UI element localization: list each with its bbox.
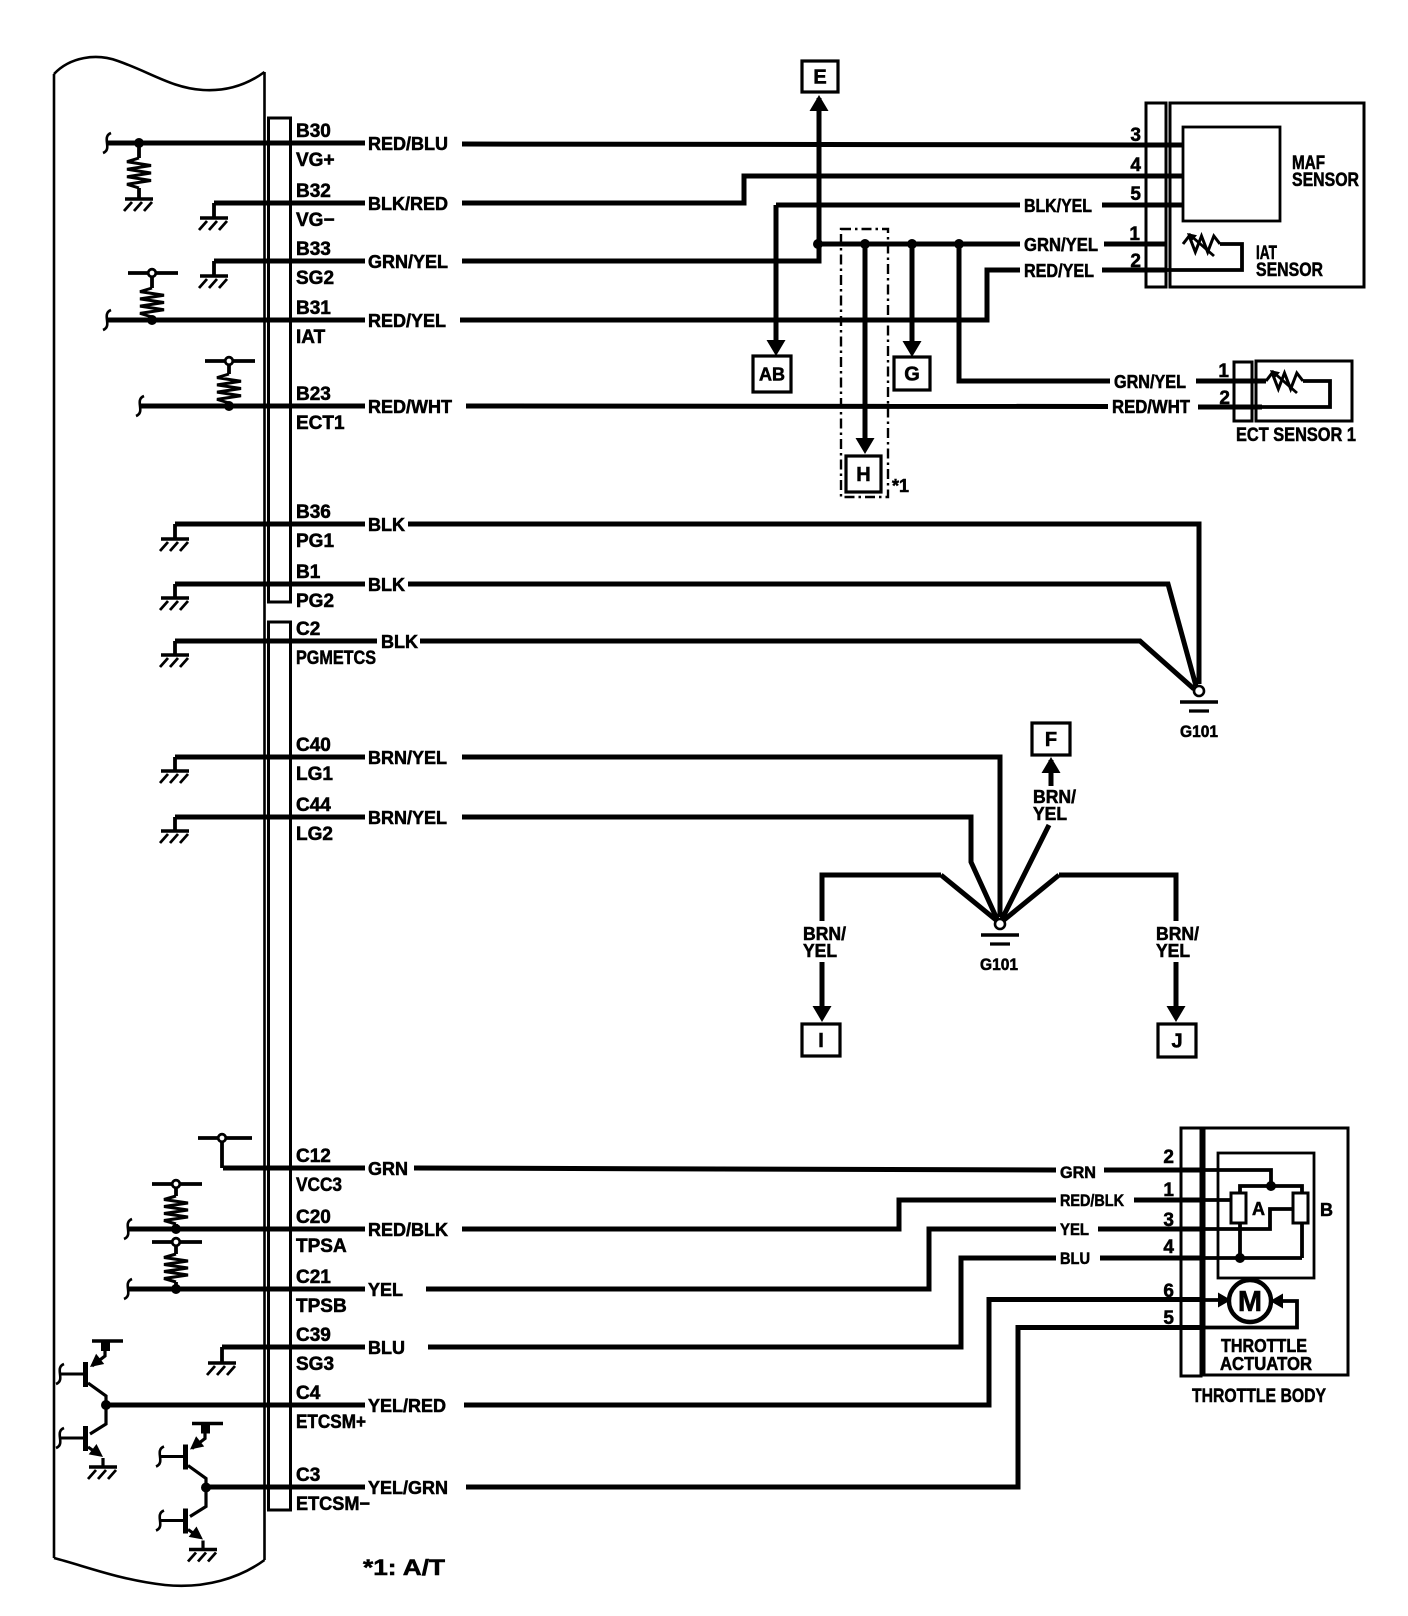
svg-text:3: 3 bbox=[1163, 1210, 1174, 1231]
svg-text:C44: C44 bbox=[296, 795, 331, 816]
svg-text:BLK/RED: BLK/RED bbox=[368, 194, 448, 214]
svg-text:YEL: YEL bbox=[1156, 941, 1190, 961]
svg-text:BLK: BLK bbox=[381, 632, 418, 652]
svg-text:J: J bbox=[1171, 1031, 1182, 1053]
svg-text:SENSOR: SENSOR bbox=[1256, 260, 1323, 281]
svg-text:B23: B23 bbox=[296, 384, 331, 405]
svg-text:ETCSM+: ETCSM+ bbox=[296, 1412, 366, 1433]
svg-text:BLK/YEL: BLK/YEL bbox=[1024, 196, 1092, 216]
svg-text:5: 5 bbox=[1130, 184, 1141, 205]
svg-text:LG1: LG1 bbox=[296, 764, 333, 785]
svg-text:1: 1 bbox=[1129, 224, 1140, 245]
svg-text:I: I bbox=[818, 1030, 824, 1052]
svg-text:H: H bbox=[856, 464, 870, 486]
svg-text:YEL/RED: YEL/RED bbox=[368, 1396, 446, 1416]
svg-text:F: F bbox=[1045, 729, 1057, 751]
svg-text:AB: AB bbox=[759, 364, 785, 384]
svg-text:BRN/YEL: BRN/YEL bbox=[368, 808, 447, 828]
svg-text:TPSB: TPSB bbox=[296, 1296, 347, 1317]
svg-text:VG+: VG+ bbox=[296, 150, 335, 171]
svg-text:C12: C12 bbox=[296, 1146, 331, 1167]
svg-text:BLU: BLU bbox=[368, 1338, 405, 1358]
svg-text:GRN/YEL: GRN/YEL bbox=[1024, 235, 1098, 255]
svg-text:C2: C2 bbox=[296, 619, 320, 640]
svg-text:RED/BLK: RED/BLK bbox=[1060, 1191, 1125, 1210]
svg-text:2: 2 bbox=[1130, 251, 1141, 272]
svg-text:BLK: BLK bbox=[368, 575, 405, 595]
svg-text:E: E bbox=[813, 67, 826, 89]
svg-text:G101: G101 bbox=[980, 955, 1018, 974]
svg-text:C40: C40 bbox=[296, 735, 331, 756]
svg-text:4: 4 bbox=[1163, 1237, 1174, 1258]
svg-text:PGMETCS: PGMETCS bbox=[296, 648, 376, 669]
svg-text:C21: C21 bbox=[296, 1267, 331, 1288]
svg-text:YEL: YEL bbox=[803, 941, 837, 961]
svg-text:3: 3 bbox=[1130, 125, 1141, 146]
svg-text:2: 2 bbox=[1163, 1147, 1174, 1168]
svg-text:YEL: YEL bbox=[368, 1280, 403, 1300]
svg-text:B36: B36 bbox=[296, 502, 331, 523]
svg-text:6: 6 bbox=[1163, 1281, 1174, 1302]
svg-text:RED/BLK: RED/BLK bbox=[368, 1220, 448, 1240]
svg-text:RED/YEL: RED/YEL bbox=[1024, 261, 1094, 281]
svg-text:GRN/YEL: GRN/YEL bbox=[1114, 372, 1186, 392]
svg-text:C4: C4 bbox=[296, 1383, 321, 1404]
svg-text:GRN/YEL: GRN/YEL bbox=[368, 252, 448, 272]
svg-text:SG3: SG3 bbox=[296, 1354, 334, 1375]
svg-text:BRN/YEL: BRN/YEL bbox=[368, 748, 447, 768]
svg-text:*1: *1 bbox=[892, 476, 909, 496]
svg-text:YEL/GRN: YEL/GRN bbox=[368, 1478, 448, 1498]
svg-text:4: 4 bbox=[1130, 155, 1141, 176]
svg-text:2: 2 bbox=[1219, 388, 1230, 409]
svg-text:ETCSM−: ETCSM− bbox=[296, 1494, 370, 1515]
svg-text:YEL: YEL bbox=[1060, 1220, 1089, 1239]
svg-text:BLK: BLK bbox=[368, 515, 405, 535]
svg-text:ACTUATOR: ACTUATOR bbox=[1220, 1354, 1312, 1374]
svg-text:G: G bbox=[904, 364, 920, 386]
svg-text:THROTTLE: THROTTLE bbox=[1221, 1336, 1307, 1356]
svg-text:G101: G101 bbox=[1180, 722, 1218, 741]
svg-text:M: M bbox=[1238, 1286, 1262, 1318]
svg-text:GRN: GRN bbox=[368, 1159, 408, 1179]
svg-text:ECT1: ECT1 bbox=[296, 413, 345, 434]
svg-text:B32: B32 bbox=[296, 181, 331, 202]
svg-text:THROTTLE BODY: THROTTLE BODY bbox=[1192, 1386, 1326, 1407]
svg-text:VCC3: VCC3 bbox=[296, 1175, 342, 1196]
svg-text:BLU: BLU bbox=[1060, 1249, 1090, 1268]
svg-text:5: 5 bbox=[1163, 1308, 1174, 1329]
svg-text:B: B bbox=[1320, 1200, 1333, 1220]
svg-text:RED/WHT: RED/WHT bbox=[368, 397, 452, 417]
svg-text:B31: B31 bbox=[296, 298, 331, 319]
svg-text:ECT SENSOR 1: ECT SENSOR 1 bbox=[1236, 425, 1356, 446]
svg-text:GRN: GRN bbox=[1060, 1163, 1096, 1182]
svg-text:TPSA: TPSA bbox=[296, 1236, 347, 1257]
svg-text:B33: B33 bbox=[296, 239, 331, 260]
svg-text:SG2: SG2 bbox=[296, 268, 334, 289]
svg-text:RED/YEL: RED/YEL bbox=[368, 311, 446, 331]
svg-text:PG2: PG2 bbox=[296, 591, 334, 612]
svg-text:B1: B1 bbox=[296, 562, 321, 583]
svg-text:1: 1 bbox=[1218, 361, 1229, 382]
svg-text:A: A bbox=[1252, 1199, 1265, 1219]
svg-text:1: 1 bbox=[1163, 1180, 1174, 1201]
svg-text:YEL: YEL bbox=[1033, 804, 1067, 824]
svg-text:IAT: IAT bbox=[296, 327, 326, 348]
svg-text:SENSOR: SENSOR bbox=[1292, 170, 1359, 191]
svg-text:B30: B30 bbox=[296, 121, 331, 142]
svg-text:PG1: PG1 bbox=[296, 531, 334, 552]
svg-text:RED/WHT: RED/WHT bbox=[1112, 397, 1190, 417]
svg-text:C39: C39 bbox=[296, 1325, 331, 1346]
svg-text:C20: C20 bbox=[296, 1207, 331, 1228]
svg-text:*1: A/T: *1: A/T bbox=[363, 1555, 446, 1580]
svg-text:C3: C3 bbox=[296, 1465, 320, 1486]
svg-text:RED/BLU: RED/BLU bbox=[368, 134, 448, 154]
svg-text:LG2: LG2 bbox=[296, 824, 333, 845]
svg-text:VG−: VG− bbox=[296, 210, 335, 231]
